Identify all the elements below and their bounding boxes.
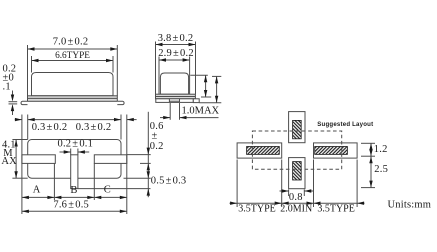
dim 6.6 extension line right <box>112 56 114 73</box>
end view height outer bottom tick <box>200 102 222 104</box>
dim 0.3 left outside tail <box>15 119 22 121</box>
svg-text:2.0MIN: 2.0MIN <box>280 204 312 215</box>
layout top pad hatch <box>293 120 302 138</box>
dim 2.9 dimension line <box>159 59 190 61</box>
bottom view pad A <box>22 155 55 164</box>
arrowheads layout bottom dims <box>230 202 237 205</box>
layout dim 0.8 extension left <box>288 190 290 197</box>
side view base plate <box>28 96 118 102</box>
arrowheads end view dim 2.9 <box>159 58 166 61</box>
pad bottom edge extension tick right <box>140 162 151 164</box>
layout dim 1.2-2.5 dimension line <box>370 143 372 187</box>
right side dimension line vertical <box>147 112 149 197</box>
dim 7.6 dimension line <box>22 210 127 212</box>
svg-text:2.9 ± 0.2: 2.9 ± 0.2 <box>158 48 194 59</box>
layout bottom extension line 3 <box>313 160 315 208</box>
dim 0.3 main dimension line <box>28 119 121 121</box>
dim 1.0 extension line left <box>169 103 171 120</box>
dim A B C extension line A-B <box>53 164 55 201</box>
arrowheads side view dim 7.0 <box>28 47 35 50</box>
dim 3.8 dimension line <box>156 44 196 46</box>
layout dim 0.8 extension right <box>303 190 305 197</box>
svg-text:1.0MAX: 1.0MAX <box>182 105 220 116</box>
side view base plate midline <box>28 97 118 99</box>
end view right foot <box>193 99 199 103</box>
svg-text:0.3 ± 0.2: 0.3 ± 0.2 <box>32 122 68 133</box>
side view body outline <box>32 73 114 96</box>
end view base plate <box>156 94 196 99</box>
dim 3.8 extension line left <box>155 42 157 95</box>
layout bottom extension line 2 <box>281 160 283 208</box>
svg-text:3.8 ± 0.2: 3.8 ± 0.2 <box>158 33 194 44</box>
layout bottom pad outline <box>289 158 305 189</box>
svg-text:1.2: 1.2 <box>374 144 388 155</box>
end view height dimension line outer <box>216 76 218 102</box>
bottom view body outline <box>28 140 121 179</box>
arrowheads bottom view dim 7.6 <box>22 210 29 213</box>
svg-text:3.5TYPE: 3.5TYPE <box>317 204 355 215</box>
arrowheads end view dim 3.8 <box>156 43 163 46</box>
layout crystal body dashed outline <box>252 131 341 169</box>
end view crimped lead row <box>156 99 194 103</box>
dim 2.9 extension line left <box>158 57 160 95</box>
dim 0.2 lead thickness dimension line <box>12 91 14 100</box>
svg-text:7.6 ± 0.5: 7.6 ± 0.5 <box>53 199 89 210</box>
dim 0.2 pad B extension left <box>70 149 72 155</box>
end view lead tab left edge <box>168 99 170 103</box>
arrowheads layout dim 0.8 <box>282 189 289 192</box>
dim 3.8 extension line right <box>195 42 197 95</box>
body bottom edge extension right <box>124 177 151 179</box>
svg-text:C: C <box>104 185 111 196</box>
dim A B C dimension line <box>22 196 127 198</box>
svg-text:7.0 ± 0.2: 7.0 ± 0.2 <box>53 36 89 47</box>
side view left lead foot <box>21 101 27 104</box>
arrowheads side view dim 0.2 <box>11 95 14 102</box>
dim 6.6 dimension line <box>32 60 114 62</box>
end view lead tab bottom <box>169 100 179 102</box>
layout left pad hatch <box>247 147 280 155</box>
dim 4.1 dimension line <box>15 140 17 179</box>
dim 0.3 extension line pad A left edge <box>21 115 23 215</box>
end view body outline <box>160 73 188 94</box>
end view height inner bottom tick <box>201 96 211 98</box>
svg-text:A: A <box>33 185 41 196</box>
end view height dimension line inner <box>205 75 207 97</box>
svg-text:0.3 ± 0.2: 0.3 ± 0.2 <box>76 122 112 133</box>
dim 7.0 extension line left <box>27 45 29 96</box>
dim 0.3 right outside tail <box>127 119 137 121</box>
end view height outer top tick <box>212 75 221 77</box>
arrowheads end view height dims <box>204 75 207 82</box>
dim 1.0 dimension line right tail <box>180 117 219 119</box>
dim 6.6 extension line left <box>31 56 33 73</box>
dim 0.2 pad B extension right <box>77 149 79 155</box>
layout bottom dimension line <box>230 202 365 204</box>
layout dim 0.8 left tail <box>280 190 289 192</box>
dim 1.0 extension line right <box>179 103 181 120</box>
dim 0.2 pad B right tail <box>78 151 89 153</box>
svg-text:2.5: 2.5 <box>374 164 388 175</box>
layout dim 1.2 top tick <box>361 142 375 144</box>
arrowheads side view dim 6.6 <box>32 59 39 62</box>
dim 4.1 body bottom edge extension left <box>12 177 27 179</box>
arrowheads bottom view dims A B C <box>22 196 29 199</box>
dim 2.9 extension line right <box>189 57 191 95</box>
arrowheads end view dim 1.0 <box>163 116 170 119</box>
arrowheads layout dims 1.2 and 2.5 <box>369 143 372 150</box>
svg-text:0.2 ± 0.1: 0.2 ± 0.1 <box>58 138 94 149</box>
svg-text:6.6TYPE: 6.6TYPE <box>55 51 90 61</box>
svg-text:Suggested Layout: Suggested Layout <box>317 121 373 128</box>
svg-text:B: B <box>70 185 77 196</box>
layout top pad outline <box>289 112 305 143</box>
layout right pad outline <box>314 143 358 158</box>
layout bottom extension line 1 <box>236 160 238 208</box>
bottom view pad B center strip <box>71 155 78 189</box>
layout dim 1.2 bottom tick <box>361 155 375 157</box>
dim 0.3 extension line pad C right edge <box>126 115 128 215</box>
svg-text:0.2: 0.2 <box>150 141 164 152</box>
dim 1.0 dimension line left tail <box>160 117 170 119</box>
dim 7.0 extension line right <box>116 45 118 96</box>
svg-text:Units:mm: Units:mm <box>388 200 432 211</box>
end view body top extension to right <box>190 74 208 76</box>
layout dim 2.5 bottom tick <box>361 187 375 189</box>
layout left pad outline <box>237 143 282 158</box>
dim 0.3 extension line body right edge <box>120 115 122 140</box>
dim 0.2 tick top <box>9 101 18 103</box>
arrowheads bottom view dim 0.2 pad B <box>64 150 71 153</box>
bottom view pad B tip extension to right <box>78 188 151 190</box>
dim A B C extension line B-C <box>93 164 95 201</box>
layout right pad hatch <box>315 147 348 155</box>
dim 0.2 tick bottom <box>9 103 18 105</box>
end view lead tab right edge <box>179 99 181 103</box>
dim 4.1 body top edge extension left <box>12 139 27 141</box>
side view right lead foot <box>117 101 124 104</box>
dim 0.2 pad B left tail <box>60 151 71 153</box>
arrowheads bottom view right dims 0.6 and 0.5 <box>147 148 150 155</box>
svg-text:0.8: 0.8 <box>289 192 303 203</box>
layout dim 0.8 right tail <box>304 190 313 192</box>
svg-text:.1: .1 <box>3 82 11 93</box>
svg-text:0.5 ± 0.3: 0.5 ± 0.3 <box>151 175 187 186</box>
svg-text:AX: AX <box>1 156 17 167</box>
dim 7.0 dimension line <box>28 48 118 50</box>
svg-text:3.5TYPE: 3.5TYPE <box>238 204 276 215</box>
dim 0.3 extension line body left edge <box>27 115 29 140</box>
arrowheads bottom view dim 0.3 <box>15 118 22 121</box>
bottom view pad C <box>94 155 127 164</box>
arrowheads bottom view dim 4.1 <box>14 140 17 147</box>
layout bottom pad hatch <box>293 162 302 180</box>
layout bottom extension line 4 <box>356 160 358 208</box>
end view base plate midline <box>156 96 196 98</box>
pad top edge extension right <box>127 154 151 156</box>
